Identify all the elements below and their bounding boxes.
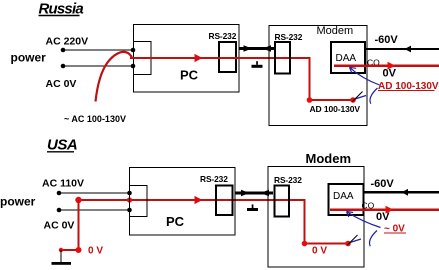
earth ground symbol xyxy=(52,250,72,265)
label ~ 0V (red, underlined) xyxy=(384,224,406,235)
blue annotation arrow to 0V line (USA) xyxy=(347,212,381,228)
blue annotation arrow to 0V node (USA) xyxy=(348,231,378,247)
RS-232 port box on PC (USA) xyxy=(216,186,233,216)
RS-232 port box on modem (USA) xyxy=(275,186,290,217)
svg-text:0 V: 0 V xyxy=(312,246,327,257)
title Russia xyxy=(39,1,84,18)
svg-text:-60V: -60V xyxy=(371,178,395,190)
label AD 100-130V (red, underlined) xyxy=(378,81,439,92)
RS-232 port box on modem xyxy=(275,42,290,74)
title USA xyxy=(47,137,77,154)
wire AC 110V to PC xyxy=(57,191,132,196)
svg-text:DAA: DAA xyxy=(333,191,354,202)
PC box xyxy=(134,25,240,93)
svg-text:AC 110V: AC 110V xyxy=(42,178,84,190)
svg-text:RS-232: RS-232 xyxy=(275,32,303,42)
svg-text:0V: 0V xyxy=(376,211,390,223)
svg-text:USA: USA xyxy=(47,137,77,154)
DAA box xyxy=(331,42,365,73)
svg-text:Modem: Modem xyxy=(317,25,354,37)
svg-text:AC 220V: AC 220V xyxy=(46,36,89,48)
PC box (USA) xyxy=(130,168,236,236)
blue annotation arrow to AD node xyxy=(353,88,378,104)
wire AC 220V to PC xyxy=(61,48,136,53)
modem box (USA) xyxy=(268,167,364,268)
svg-text:DAA: DAA xyxy=(336,53,357,64)
-60V telephone wire (USA) xyxy=(364,189,439,196)
svg-text:RS-232: RS-232 xyxy=(209,31,237,41)
svg-text:0 V: 0 V xyxy=(88,246,103,257)
PC power connector box xyxy=(134,42,152,75)
-60V telephone wire xyxy=(366,46,439,53)
red mains curve (~AC 100-130V riser) xyxy=(96,52,133,102)
RS-232 cable PC to modem xyxy=(239,45,275,52)
svg-text:0V: 0V xyxy=(383,68,397,80)
svg-text:PC: PC xyxy=(166,214,185,229)
svg-text:RS-232: RS-232 xyxy=(274,175,302,185)
modem box (Russia) xyxy=(269,26,367,126)
red arrowhead on PC wire (USA) xyxy=(195,196,203,204)
blue annotation arrow to 0V line xyxy=(350,67,380,85)
svg-text:AC 0V: AC 0V xyxy=(44,220,75,232)
svg-text:-60V: -60V xyxy=(375,34,399,46)
red ground branch xyxy=(59,200,82,253)
RS-232 port box on PC xyxy=(219,42,236,72)
svg-text:AC 0V: AC 0V xyxy=(46,78,77,90)
svg-text:~ AC 100-130V: ~ AC 100-130V xyxy=(64,114,126,124)
red wire through PC to modem xyxy=(130,57,311,59)
svg-text:Modem: Modem xyxy=(306,151,352,166)
svg-text:power: power xyxy=(0,195,36,209)
svg-text:power: power xyxy=(11,51,47,65)
PC power connector box (USA) xyxy=(130,186,148,217)
signal ground symbol under cable (USA) xyxy=(247,204,258,211)
red elbow wire to 0V node (USA) xyxy=(302,200,351,246)
svg-text:RS-232: RS-232 xyxy=(200,174,228,184)
RS-232 cable PC to modem (USA) xyxy=(235,190,273,197)
red elbow wire to AD node xyxy=(307,58,356,103)
wire AC 0V to PC xyxy=(57,208,132,213)
wire AC 0V to PC xyxy=(61,64,136,69)
red 0V reference wire through PC xyxy=(75,197,305,203)
signal ground symbol under cable xyxy=(252,61,263,68)
svg-text:PC: PC xyxy=(180,68,199,83)
DAA box (USA) xyxy=(329,184,364,215)
svg-text:AD 100-130V: AD 100-130V xyxy=(310,104,361,114)
red arrowhead on PC wire xyxy=(195,54,203,62)
0V red telephone wire xyxy=(334,62,439,70)
0V red telephone wire (USA) xyxy=(330,206,439,214)
